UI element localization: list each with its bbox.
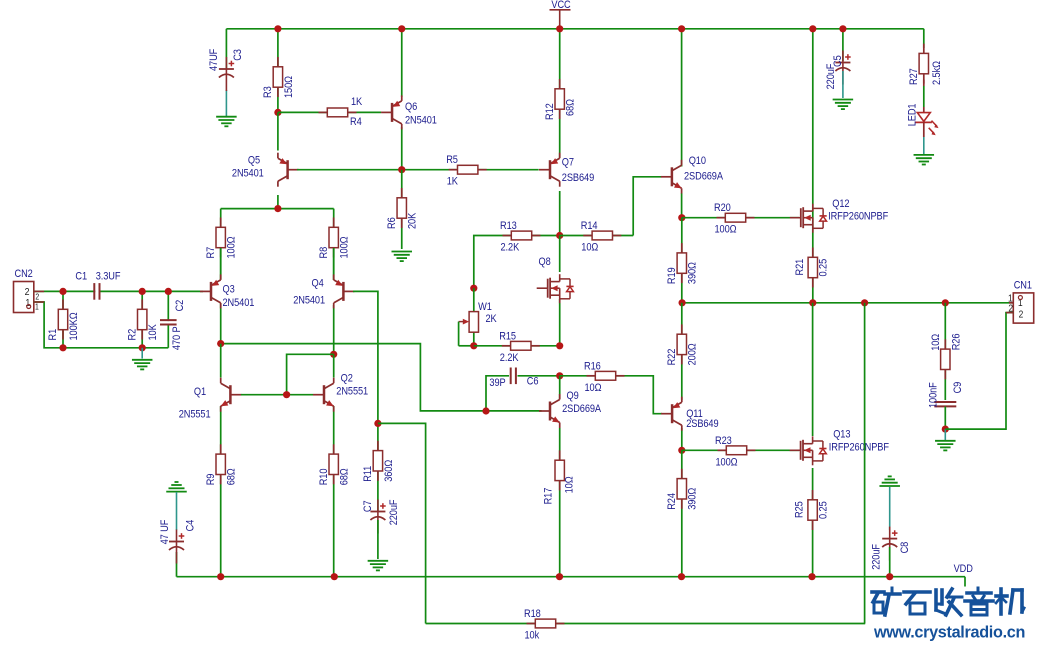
svg-text:R6: R6 xyxy=(386,217,398,229)
node C9 ground xyxy=(942,426,949,433)
svg-text:C5: C5 xyxy=(832,55,844,67)
wire CN1 pin2 to ground node xyxy=(945,313,1013,430)
wire VDD rail xyxy=(177,576,966,578)
svg-text:2N5401: 2N5401 xyxy=(293,295,325,307)
ground under C3 xyxy=(216,116,237,118)
svg-text:1: 1 xyxy=(1008,293,1013,304)
svg-text:2.5kΩ: 2.5kΩ xyxy=(931,61,943,85)
transistor Q2 xyxy=(333,354,335,377)
svg-text:Q4: Q4 xyxy=(312,278,325,290)
svg-text:100Ω: 100Ω xyxy=(339,236,351,258)
ground under R6 xyxy=(392,251,413,253)
ground under LED1 xyxy=(914,154,935,156)
capacitor C5 xyxy=(842,29,844,61)
svg-text:R19: R19 xyxy=(666,267,678,284)
svg-text:IRFP260NPBF: IRFP260NPBF xyxy=(829,442,889,454)
node R24 VDD xyxy=(678,573,685,580)
transistor Q3 xyxy=(220,248,222,280)
resistor R23 xyxy=(682,449,799,451)
watermark logo xyxy=(872,588,1024,615)
svg-text:390Ω: 390Ω xyxy=(687,487,699,509)
svg-text:20K: 20K xyxy=(407,213,419,229)
svg-text:R11: R11 xyxy=(362,465,374,481)
svg-text:Q1: Q1 xyxy=(194,386,207,398)
node C6 left xyxy=(482,407,489,414)
svg-text:68Ω: 68Ω xyxy=(339,468,351,485)
svg-text:Q8: Q8 xyxy=(539,256,552,268)
svg-text:2SD669A: 2SD669A xyxy=(684,171,723,183)
svg-text:R2: R2 xyxy=(127,328,139,340)
resistor R8 xyxy=(333,209,335,280)
transistor Q4 xyxy=(333,248,335,280)
transistor Q11 xyxy=(681,428,683,450)
svg-text:C7: C7 xyxy=(362,500,374,512)
svg-text:IRFP260NPBF: IRFP260NPBF xyxy=(828,211,888,223)
node Q5 collector xyxy=(274,205,281,212)
ground under R2 xyxy=(141,348,143,359)
resistor R15 xyxy=(474,345,560,347)
wire Q3 collector to Q9 base xyxy=(221,344,542,411)
svg-text:2: 2 xyxy=(35,292,39,302)
node Q6-R5-R6 xyxy=(398,166,405,173)
connector CN1 xyxy=(1013,293,1033,323)
wire Q4 base feedback node xyxy=(353,291,378,423)
svg-text:CN1: CN1 xyxy=(1014,280,1033,292)
svg-text:R26: R26 xyxy=(951,333,963,350)
node C8 VDD xyxy=(886,573,893,580)
resistor R18 xyxy=(426,623,866,625)
wire CN1 pin1 xyxy=(1009,302,1013,304)
resistor R26 xyxy=(944,303,946,400)
node R10 VDD xyxy=(331,573,338,580)
node Q1-Q3 collectors xyxy=(217,340,224,347)
led LED1 xyxy=(923,80,925,86)
resistor R1 xyxy=(62,291,64,347)
svg-text:C2: C2 xyxy=(174,299,186,311)
wire Q2 diode connection xyxy=(287,354,334,394)
svg-text:220uF: 220uF xyxy=(388,500,400,526)
svg-text:R8: R8 xyxy=(318,246,330,258)
svg-text:10k: 10k xyxy=(525,630,541,642)
svg-text:Q7: Q7 xyxy=(562,157,575,169)
svg-text:Q13: Q13 xyxy=(833,429,851,441)
resistor R19 xyxy=(681,218,683,303)
svg-text:470 P: 470 P xyxy=(171,326,183,350)
svg-text:Q5: Q5 xyxy=(248,155,261,167)
capacitor C4 xyxy=(166,491,187,493)
mosfet Q8 xyxy=(559,236,561,273)
capacitor C2 xyxy=(167,291,169,347)
node R11 feedback xyxy=(374,420,381,427)
wire feedback from output xyxy=(864,303,866,624)
resistor R4 xyxy=(278,111,381,113)
svg-text:Q3: Q3 xyxy=(223,284,236,296)
svg-text:2N5401: 2N5401 xyxy=(223,297,255,309)
svg-text:C4: C4 xyxy=(185,519,197,531)
svg-text:R4: R4 xyxy=(350,116,362,128)
wire CN2 pin2 input xyxy=(34,290,203,292)
capacitor C3 xyxy=(225,29,227,68)
resistor R13 xyxy=(474,236,560,289)
svg-text:R20: R20 xyxy=(714,203,731,215)
transistor Q1 xyxy=(220,344,222,378)
svg-text:R5: R5 xyxy=(446,155,458,167)
ground under C5 xyxy=(833,99,854,101)
svg-text:360Ω: 360Ω xyxy=(383,459,395,481)
svg-text:2N5401: 2N5401 xyxy=(405,115,437,127)
svg-text:R17: R17 xyxy=(543,487,555,504)
svg-text:R22: R22 xyxy=(666,348,678,365)
node Q11 collector R23 R24 xyxy=(678,447,685,454)
svg-text:Q9: Q9 xyxy=(567,390,580,402)
resistor R12 xyxy=(559,29,561,158)
svg-text:Q12: Q12 xyxy=(832,198,850,210)
transistor Q9 xyxy=(559,376,561,399)
svg-text:0.25: 0.25 xyxy=(818,501,830,519)
svg-text:68Ω: 68Ω xyxy=(565,99,577,116)
wire Q5 base to R6 node xyxy=(297,169,447,171)
node Q9 collector xyxy=(556,372,563,379)
svg-text:R7: R7 xyxy=(205,246,217,258)
svg-text:100KΩ: 100KΩ xyxy=(68,312,80,340)
svg-text:100Ω: 100Ω xyxy=(715,224,737,236)
svg-text:2: 2 xyxy=(1019,309,1024,320)
capacitor C8 xyxy=(879,485,900,487)
resistor R9 xyxy=(220,454,222,577)
svg-text:2SB649: 2SB649 xyxy=(562,172,595,184)
svg-text:39P: 39P xyxy=(489,378,505,390)
svg-text:100Ω: 100Ω xyxy=(226,236,238,258)
capacitor C6 xyxy=(486,376,509,411)
potentiometer W1 xyxy=(473,288,475,312)
node Q10 emitter R20 R19 xyxy=(681,194,683,218)
resistor R11 xyxy=(377,423,379,512)
svg-text:10Ω: 10Ω xyxy=(585,382,602,394)
wire output rail xyxy=(682,302,1013,304)
svg-text:2SB649: 2SB649 xyxy=(686,418,719,430)
resistor R10 xyxy=(333,454,335,577)
svg-text:1K: 1K xyxy=(447,176,458,188)
node R3 top xyxy=(274,25,281,32)
svg-text:47 UF: 47 UF xyxy=(159,520,171,545)
svg-text:200Ω: 200Ω xyxy=(687,343,699,365)
capacitor C9 xyxy=(939,403,951,406)
node R15 right xyxy=(556,342,563,349)
resistor R16 xyxy=(560,376,662,414)
svg-text:R14: R14 xyxy=(581,220,598,232)
resistor R25 xyxy=(812,468,814,577)
svg-text:390Ω: 390Ω xyxy=(687,262,699,284)
resistor R22 xyxy=(681,303,683,400)
svg-text:R16: R16 xyxy=(584,361,601,373)
svg-text:www.crystalradio.cn: www.crystalradio.cn xyxy=(873,624,1025,642)
connector CN2 xyxy=(14,282,34,313)
wire R7-R8 rail xyxy=(221,208,334,210)
svg-text:1: 1 xyxy=(25,297,30,309)
capacitor C1 xyxy=(95,285,98,297)
svg-text:1: 1 xyxy=(35,302,39,312)
node R17 VDD xyxy=(556,573,563,580)
node R25 VDD xyxy=(808,573,815,580)
wire VCC rail xyxy=(226,28,923,30)
svg-text:10Ω: 10Ω xyxy=(564,476,576,493)
node Q8 gate xyxy=(470,285,477,292)
svg-text:10Ω: 10Ω xyxy=(930,333,942,350)
node R9 VDD xyxy=(217,573,224,580)
capacitor C7 xyxy=(377,500,379,534)
svg-text:R12: R12 xyxy=(544,103,556,120)
resistor R17 xyxy=(559,450,561,577)
ground under C9 xyxy=(944,429,946,440)
ground under C7 xyxy=(368,560,389,562)
svg-text:Q6: Q6 xyxy=(405,101,418,113)
svg-text:R23: R23 xyxy=(715,435,732,447)
svg-text:100Ω: 100Ω xyxy=(716,457,738,469)
node Q7 collector R13 R14 xyxy=(556,232,563,239)
svg-text:C1: C1 xyxy=(75,271,87,283)
svg-text:C8: C8 xyxy=(899,541,911,553)
svg-text:R18: R18 xyxy=(524,608,541,620)
svg-text:2N5401: 2N5401 xyxy=(232,168,264,180)
svg-text:C9: C9 xyxy=(952,381,964,393)
wire Q1-Q2 bases xyxy=(241,394,313,396)
node W1 bottom xyxy=(470,342,477,349)
svg-text:Q10: Q10 xyxy=(689,155,707,167)
resistor R24 xyxy=(681,450,683,576)
resistor R20 xyxy=(682,217,799,219)
node R3-R4-Q5 xyxy=(274,109,281,116)
svg-text:CN2: CN2 xyxy=(15,268,34,280)
node Q2-Q4 collectors xyxy=(330,351,337,358)
svg-text:47UF: 47UF xyxy=(208,49,220,71)
resistor R2 xyxy=(141,291,143,347)
svg-text:C3: C3 xyxy=(232,49,244,61)
svg-text:LED1: LED1 xyxy=(907,103,919,126)
wire R14 to Q10 base xyxy=(633,177,661,236)
svg-text:R15: R15 xyxy=(499,331,516,343)
resistor R27 xyxy=(923,29,925,48)
svg-text:2.2K: 2.2K xyxy=(501,242,520,254)
svg-text:Q2: Q2 xyxy=(341,373,354,385)
svg-text:R21: R21 xyxy=(794,258,806,275)
svg-text:VDD: VDD xyxy=(954,563,973,575)
svg-text:10K: 10K xyxy=(147,324,159,340)
svg-text:R24: R24 xyxy=(666,493,678,510)
svg-text:68Ω: 68Ω xyxy=(226,468,238,485)
svg-text:R1: R1 xyxy=(48,328,60,340)
transistor Q6 xyxy=(401,29,403,97)
svg-text:2K: 2K xyxy=(486,313,497,325)
svg-text:R3: R3 xyxy=(262,86,274,98)
wire feedback to R18 xyxy=(378,423,426,623)
svg-text:R9: R9 xyxy=(205,473,217,485)
svg-text:R10: R10 xyxy=(318,468,330,485)
svg-text:220uF: 220uF xyxy=(871,544,883,570)
svg-text:2SD669A: 2SD669A xyxy=(562,403,601,415)
resistor R14 xyxy=(560,235,634,237)
svg-text:2.2K: 2.2K xyxy=(500,352,519,364)
resistor R7 xyxy=(220,209,222,280)
transistor Q10 xyxy=(681,29,683,167)
svg-text:0.25: 0.25 xyxy=(818,258,830,276)
wire CN2 pin1 to ground rail xyxy=(34,302,169,348)
svg-text:2: 2 xyxy=(25,286,30,298)
svg-text:R25: R25 xyxy=(794,501,806,518)
svg-text:W1: W1 xyxy=(478,301,492,313)
mosfet Q13 xyxy=(812,303,814,436)
svg-text:2N5551: 2N5551 xyxy=(179,409,211,421)
svg-text:3.3UF: 3.3UF xyxy=(96,271,121,283)
resistor R5 xyxy=(447,169,539,171)
resistor R21 xyxy=(812,246,814,303)
resistor R3 xyxy=(277,29,279,113)
svg-text:C6: C6 xyxy=(527,376,539,388)
transistor Q7 xyxy=(559,191,561,236)
resistor R6 xyxy=(401,170,403,249)
svg-text:2N5551: 2N5551 xyxy=(336,386,368,398)
svg-text:R27: R27 xyxy=(908,68,920,85)
mosfet Q12 xyxy=(812,29,814,246)
svg-text:150Ω: 150Ω xyxy=(283,76,295,98)
svg-text:1K: 1K xyxy=(351,96,362,108)
svg-text:10Ω: 10Ω xyxy=(581,242,598,254)
svg-text:100nF: 100nF xyxy=(928,382,940,408)
transistor Q5 xyxy=(277,112,279,150)
svg-text:R13: R13 xyxy=(500,220,517,232)
